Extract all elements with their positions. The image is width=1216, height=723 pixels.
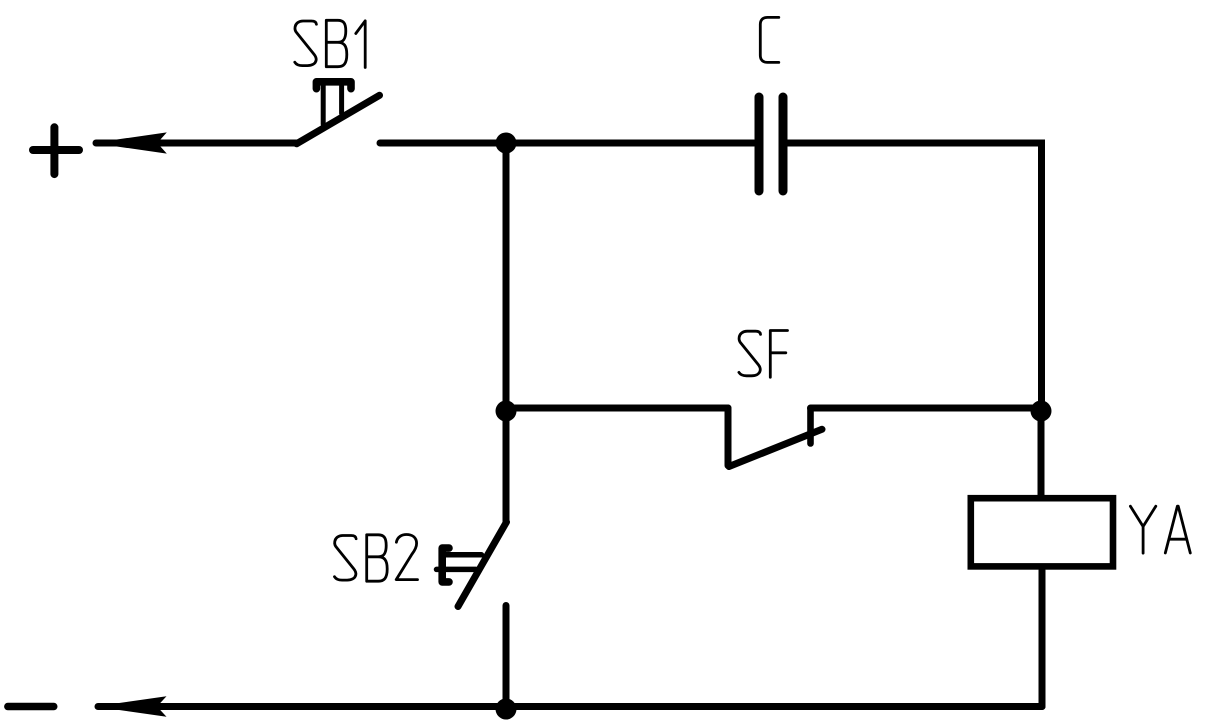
label SB1 xyxy=(295,20,365,67)
node: right junction xyxy=(1031,401,1052,422)
node: top junction xyxy=(496,133,517,154)
arrow (negative feed) xyxy=(95,696,1043,717)
node: bottom junction xyxy=(496,699,517,720)
capacitor C xyxy=(759,97,783,191)
position switch SF xyxy=(728,408,822,467)
wire: SB1 to capacitor xyxy=(380,140,754,147)
wire: SB2 to bottom node xyxy=(503,606,510,708)
wire: left node to SF xyxy=(506,405,728,412)
label C xyxy=(760,17,779,62)
minus terminal xyxy=(8,703,54,710)
solenoid coil YA xyxy=(971,498,1113,566)
pushbutton SB2 xyxy=(437,522,507,607)
label YA xyxy=(1130,506,1190,553)
label SF xyxy=(739,331,788,378)
node: left middle junction xyxy=(496,401,517,422)
+ terminal xyxy=(33,127,79,174)
wire: coil to bottom-right corner xyxy=(1039,570,1046,707)
wire: capacitor to top-right corner and down xyxy=(788,143,1042,411)
pushbutton SB1 xyxy=(297,82,380,144)
label SB2 xyxy=(335,535,418,582)
arrow (positive feed) xyxy=(93,132,298,153)
wire: left vertical (top node to SB2) xyxy=(503,143,510,522)
wire: right node to coil xyxy=(1038,411,1045,496)
wire: SF to right node xyxy=(811,405,1042,412)
